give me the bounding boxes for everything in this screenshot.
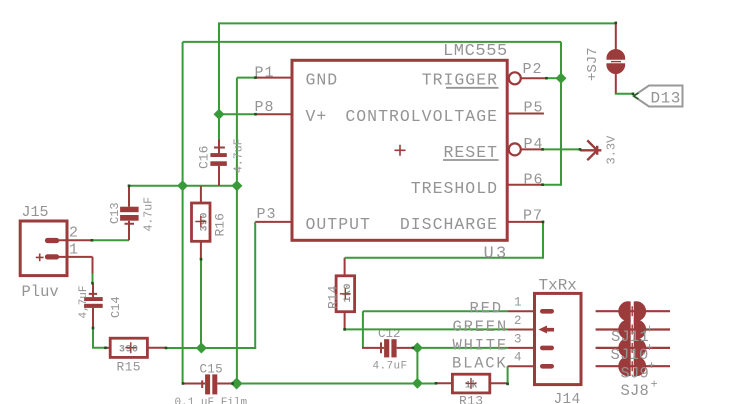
wire P7 to R14 (345, 221, 543, 258)
junction at x=236.9 y=185.8 (231, 180, 242, 191)
svg-text:1: 1 (514, 296, 522, 310)
junction at P8 (214, 109, 225, 120)
wire J15.1 to C14 (92, 274, 94, 285)
svg-text:SJ10: SJ10 (611, 346, 649, 364)
IC U1 LMC555 box (292, 60, 507, 240)
svg-text:4,7uF: 4,7uF (78, 285, 90, 318)
pin P2 (521, 77, 547, 79)
origin cross R14 (340, 288, 351, 299)
supply arrow 3.3V (580, 140, 601, 160)
svg-text:U3: U3 (484, 245, 509, 264)
svg-text:P3: P3 (257, 206, 277, 223)
pin J15.1 (59, 257, 93, 275)
pin J14.2 (508, 329, 535, 331)
pin J14.1 (508, 310, 535, 312)
svg-text:TxRx: TxRx (539, 277, 577, 295)
lead R13 left (436, 382, 452, 384)
junction at P2 (556, 73, 567, 84)
net flag D13 (634, 86, 683, 107)
pin P3 (255, 221, 290, 223)
wire RED net (363, 310, 508, 312)
pin J15.2 (59, 239, 92, 241)
pin bubble P4 (509, 143, 521, 155)
origin cross R16 (195, 216, 206, 227)
resistor R16 (192, 186, 211, 259)
svg-text:P5: P5 (524, 100, 544, 117)
svg-text:+: + (646, 323, 653, 337)
wire P2 (547, 77, 562, 79)
svg-text:TRESHOLD: TRESHOLD (411, 179, 498, 198)
capacitor C16 (210, 140, 226, 186)
svg-text:P6: P6 (524, 172, 544, 189)
junction at x=182.6 y=185.8 (177, 180, 188, 191)
svg-text:TRIGGER: TRIGGER (422, 71, 498, 90)
svg-text:+SJ7: +SJ7 (585, 47, 601, 81)
origin cross R13 (466, 378, 477, 389)
svg-text:P7: P7 (523, 208, 543, 225)
svg-text:GREEN: GREEN (453, 318, 509, 336)
svg-text:4: 4 (514, 351, 522, 365)
svg-text:C14: C14 (109, 296, 123, 318)
svg-text:3: 3 (514, 333, 522, 347)
svg-text:4.7uF: 4.7uF (373, 361, 408, 373)
resistor R15 (110, 338, 166, 357)
svg-text:+: + (646, 341, 653, 355)
wire second top rail (183, 41, 561, 43)
underline RESET (443, 159, 499, 161)
svg-text:D13: D13 (651, 90, 681, 108)
svg-text:OUTPUT: OUTPUT (306, 215, 371, 234)
svg-text:SJ8: SJ8 (621, 382, 650, 400)
svg-text:P8: P8 (255, 99, 275, 116)
svg-text:R16: R16 (213, 213, 228, 236)
svg-text:SJ9: SJ9 (621, 365, 650, 383)
wire R16 bottom (200, 259, 202, 348)
svg-text:R14: R14 (326, 285, 341, 309)
junction at rail x=417.4 (412, 378, 423, 389)
wire WHITE net (413, 347, 508, 349)
svg-text:BLACK: BLACK (452, 355, 508, 373)
wire vertical x=561 (560, 42, 562, 186)
capacitor C14 (84, 284, 103, 329)
pin P7 (507, 221, 543, 223)
svg-text:Pluv: Pluv (22, 283, 59, 301)
solder jumper SJ7 (606, 22, 625, 93)
wire vertical x=219 to C16 (218, 22, 220, 140)
pin P6 (507, 184, 543, 186)
origin cross R15 (125, 342, 136, 353)
wire P8 (219, 113, 256, 115)
junction at C12 right (412, 342, 423, 353)
capacitor C13 (120, 186, 139, 241)
svg-text:2: 2 (69, 225, 78, 242)
wire SJ7 to D13 (615, 93, 633, 95)
wire y=348 output rail (166, 347, 256, 349)
pin P8 (256, 113, 291, 115)
svg-text:4.7uF: 4.7uF (233, 138, 246, 173)
wire R13 to J14 pin4 (507, 366, 509, 384)
svg-text:C13: C13 (108, 202, 122, 224)
svg-text:R13: R13 (459, 394, 483, 404)
svg-text:LMC555: LMC555 (443, 42, 508, 61)
svg-text:WHITE: WHITE (453, 336, 509, 354)
pin J14.4 (508, 365, 535, 367)
svg-text:1k0: 1k0 (342, 283, 354, 303)
svg-text:2: 2 (514, 314, 522, 328)
capacitor C15 (183, 374, 237, 394)
junction at R16 bottom (196, 343, 207, 354)
svg-text:DISCHARGE: DISCHARGE (400, 215, 498, 234)
svg-text:P1: P1 (255, 65, 275, 82)
resistor R14 (336, 258, 355, 330)
svg-text:GND: GND (306, 71, 339, 90)
pin bubble P2 (509, 72, 521, 84)
svg-text:+: + (651, 378, 658, 392)
wire end dots (91, 22, 635, 386)
svg-text:V+: V+ (306, 107, 328, 126)
wire vertical x=236.9 P1 to bottom rail (236, 78, 238, 384)
wire P3 vertical (254, 222, 256, 348)
pin J14.3 (508, 347, 535, 349)
svg-text:3.3V: 3.3V (605, 135, 619, 165)
connector J15 (20, 221, 67, 276)
wire P6 (543, 184, 561, 186)
svg-text:4.7uF: 4.7uF (143, 197, 156, 232)
solder jumper SJ10 (596, 319, 670, 339)
svg-text:SJ11: SJ11 (611, 328, 649, 346)
wire J15.2 to C13 (92, 239, 129, 241)
solder jumper SJ11 (596, 301, 670, 321)
svg-text:+: + (648, 359, 655, 373)
connector J14 (535, 293, 582, 384)
svg-text:0.1 uF Film: 0.1 uF Film (175, 397, 248, 404)
wire C14 to R15 (93, 328, 105, 348)
svg-text:390: 390 (119, 345, 139, 356)
junction at C15 right (231, 378, 243, 390)
wire y=185.8 C13 to junction (129, 185, 237, 187)
wire P4 to 3.3V (543, 148, 581, 150)
wire GREEN net (345, 328, 508, 330)
svg-text:C16: C16 (197, 146, 212, 169)
svg-text:CONTROLVOLTAGE: CONTROLVOLTAGE (345, 107, 498, 126)
wire tall vertical x=182.6 (182, 42, 184, 384)
resistor R13 (452, 374, 507, 393)
wire top rail net VCC (219, 22, 616, 24)
svg-text:P4: P4 (524, 136, 544, 153)
lead R15 left (105, 347, 110, 349)
svg-text:J15: J15 (22, 204, 49, 221)
wire bottom rail (232, 383, 436, 385)
svg-text:RED: RED (470, 300, 503, 318)
underline TRIGGER (446, 87, 499, 89)
svg-text:P2: P2 (523, 61, 543, 78)
origin cross IC (395, 145, 406, 156)
pin P1 (256, 77, 291, 79)
pin P4 (521, 148, 543, 150)
svg-text:C15: C15 (200, 362, 223, 376)
capacitor C12 (362, 311, 413, 357)
pin P5 (507, 113, 544, 115)
svg-text:R15: R15 (117, 359, 141, 374)
wire P1 (237, 77, 256, 79)
solder jumper SJ9 (596, 338, 670, 358)
svg-text:J14: J14 (554, 392, 581, 404)
solder jumper SJ8 (596, 356, 670, 376)
wire C12 to rail (416, 348, 418, 383)
